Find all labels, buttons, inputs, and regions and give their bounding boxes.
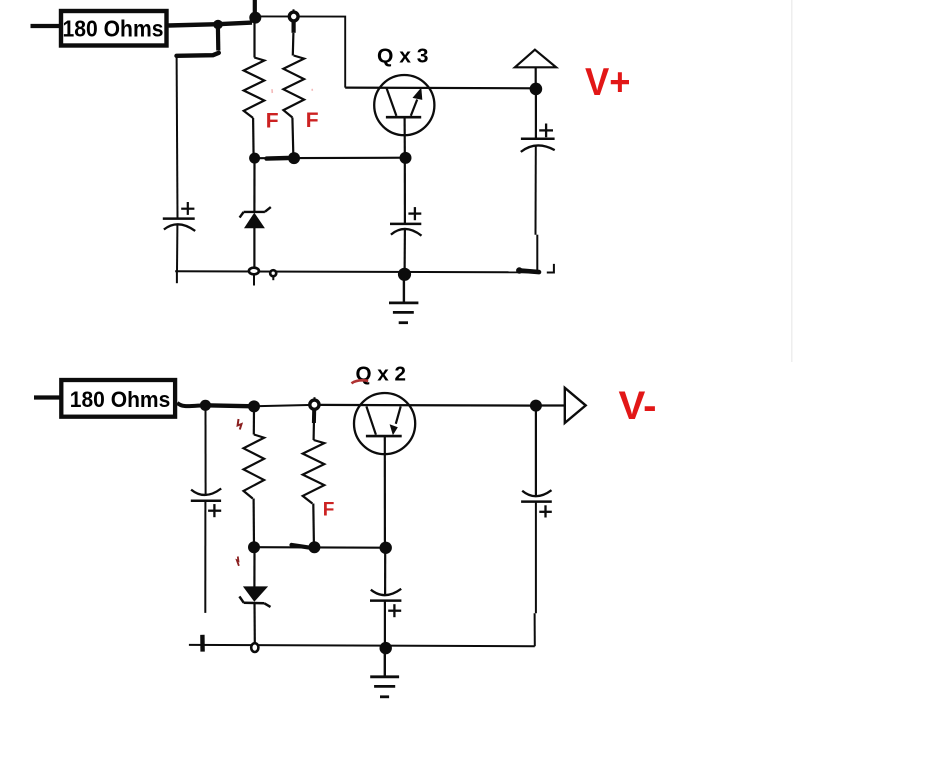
svg-text:V+: V+ (585, 61, 631, 104)
svg-text:F: F (266, 110, 279, 133)
svg-text:180 Ohms: 180 Ohms (70, 387, 171, 412)
svg-text:Q x 3: Q x 3 (377, 46, 429, 68)
svg-text:Q x 2: Q x 2 (356, 363, 407, 386)
svg-text:F: F (306, 109, 319, 132)
svg-text:F: F (323, 500, 335, 521)
svg-text:180 Ohms: 180 Ohms (63, 16, 164, 42)
svg-text:V-: V- (619, 384, 657, 428)
